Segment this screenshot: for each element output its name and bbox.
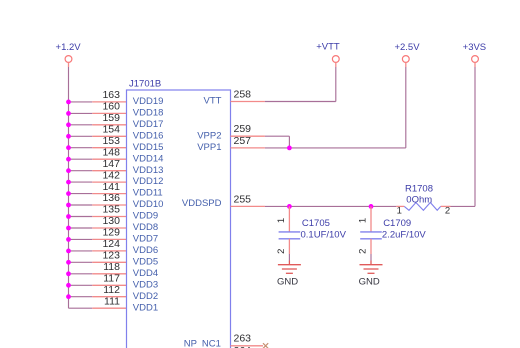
svg-text:J1701B: J1701B: [129, 79, 161, 90]
svg-text:257: 257: [234, 135, 252, 147]
svg-text:VDD14: VDD14: [133, 153, 164, 164]
svg-text:NC1: NC1: [202, 339, 221, 348]
svg-text:VDD10: VDD10: [133, 199, 164, 210]
svg-text:263: 263: [234, 333, 252, 345]
svg-text:136: 136: [102, 192, 120, 204]
svg-text:GND: GND: [277, 277, 298, 288]
svg-text:2: 2: [445, 206, 450, 217]
svg-text:VDD8: VDD8: [133, 222, 158, 233]
svg-text:2: 2: [276, 249, 287, 254]
svg-text:VDD13: VDD13: [133, 165, 164, 176]
svg-text:147: 147: [102, 158, 120, 170]
svg-text:VDD6: VDD6: [133, 245, 158, 256]
svg-text:255: 255: [234, 193, 252, 205]
svg-text:VPP2: VPP2: [197, 130, 221, 141]
svg-text:NP: NP: [184, 339, 197, 348]
svg-text:123: 123: [102, 250, 120, 262]
svg-text:124: 124: [102, 238, 120, 250]
svg-text:VDD5: VDD5: [133, 256, 158, 267]
svg-text:163: 163: [102, 89, 120, 101]
svg-text:153: 153: [102, 135, 120, 147]
svg-text:VDD7: VDD7: [133, 234, 158, 245]
svg-text:VDDSPD: VDDSPD: [182, 198, 222, 209]
svg-text:1: 1: [357, 218, 368, 223]
svg-text:129: 129: [102, 227, 120, 239]
svg-text:C1705: C1705: [302, 218, 330, 229]
svg-text:R1708: R1708: [405, 183, 433, 194]
svg-text:VDD1: VDD1: [133, 302, 158, 313]
svg-text:VDD15: VDD15: [133, 142, 164, 153]
svg-text:118: 118: [103, 261, 120, 273]
svg-text:+1.2V: +1.2V: [56, 42, 82, 53]
svg-text:111: 111: [104, 295, 120, 307]
svg-text:VDD12: VDD12: [133, 176, 164, 187]
svg-text:VDD4: VDD4: [133, 268, 158, 279]
svg-text:+2.5V: +2.5V: [394, 42, 420, 53]
svg-text:VDD11: VDD11: [133, 188, 163, 199]
svg-text:160: 160: [102, 101, 120, 113]
svg-text:VDD2: VDD2: [133, 291, 158, 302]
svg-text:148: 148: [102, 146, 120, 158]
svg-text:112: 112: [103, 284, 120, 296]
svg-text:VDD17: VDD17: [133, 119, 164, 130]
svg-text:2.2uF/10V: 2.2uF/10V: [382, 229, 426, 240]
svg-text:C1709: C1709: [383, 218, 411, 229]
svg-text:1: 1: [397, 206, 402, 217]
svg-text:142: 142: [102, 169, 120, 181]
svg-text:117: 117: [103, 273, 120, 285]
svg-text:VPP1: VPP1: [197, 142, 221, 153]
svg-text:2: 2: [357, 249, 368, 254]
svg-text:+VTT: +VTT: [316, 41, 340, 52]
svg-text:VDD18: VDD18: [133, 108, 164, 119]
svg-text:VDD19: VDD19: [133, 96, 164, 107]
svg-text:VTT: VTT: [204, 96, 222, 107]
svg-text:VDD9: VDD9: [133, 211, 158, 222]
svg-text:259: 259: [234, 123, 252, 135]
svg-text:159: 159: [102, 112, 120, 124]
svg-text:VDD16: VDD16: [133, 130, 164, 141]
svg-text:GND: GND: [359, 277, 380, 288]
svg-text:+3VS: +3VS: [463, 42, 487, 53]
svg-text:1: 1: [276, 218, 287, 223]
svg-text:0Ohm: 0Ohm: [406, 195, 432, 206]
svg-text:154: 154: [102, 124, 120, 136]
svg-text:135: 135: [102, 204, 120, 216]
svg-text:141: 141: [102, 181, 120, 193]
svg-text:130: 130: [102, 215, 120, 227]
svg-text:258: 258: [234, 89, 252, 101]
svg-text:VDD3: VDD3: [133, 279, 158, 290]
svg-text:0.1UF/10V: 0.1UF/10V: [301, 229, 347, 240]
